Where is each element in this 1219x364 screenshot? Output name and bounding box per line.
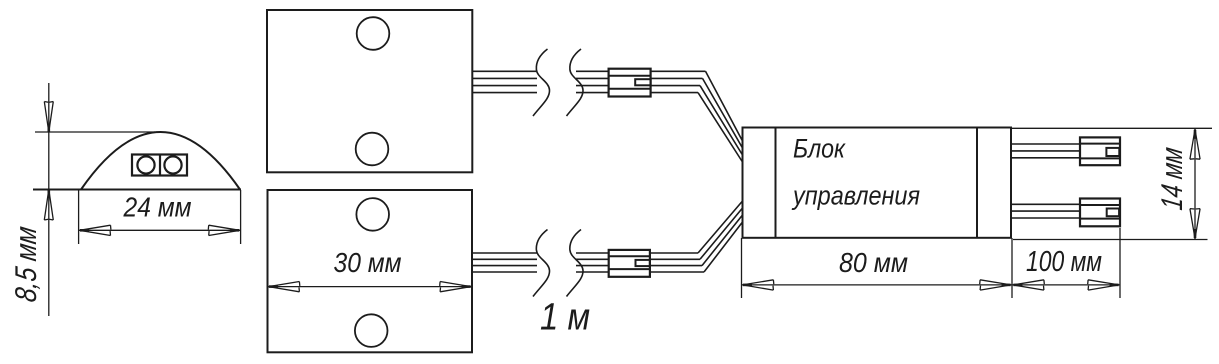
dimension 14 mm top extension line <box>1012 127 1212 129</box>
top inline connector internal lines <box>609 76 651 89</box>
bottom output wires <box>1011 204 1080 218</box>
dimension 100 mm left arrow <box>1013 280 1044 290</box>
control box right internal divider <box>976 128 978 238</box>
top output wires <box>1011 144 1080 158</box>
lower magnet-switch body <box>268 190 473 352</box>
dome left LED circle <box>137 156 154 173</box>
dome sensor front-view body <box>81 132 240 190</box>
dimension 30 mm line <box>268 286 473 288</box>
upper magnet-switch body <box>267 10 472 172</box>
top cable wires (sensor to break) <box>472 71 537 92</box>
dimension 80/100 mm shared extension line <box>1011 238 1013 298</box>
bottom cable wires (sensor to break) <box>472 253 537 272</box>
bottom inline connector internal lines <box>609 256 650 269</box>
dimension 100 mm right extension line <box>1119 228 1121 298</box>
bottom cable wires (connector to bend) <box>650 253 704 272</box>
8,5 mm upper extension line at dome apex <box>35 131 155 133</box>
dimension 80 mm line <box>742 284 1013 286</box>
upper body top hole <box>357 17 390 50</box>
top cable diagonal wires into control box <box>698 71 743 162</box>
svg-text:30 мм: 30 мм <box>334 247 402 278</box>
dimension 100 mm line <box>1012 284 1120 286</box>
top output connector internal lines <box>1080 144 1120 159</box>
dome LED window rectangle <box>132 155 187 176</box>
lower body bottom hole <box>355 314 388 347</box>
bottom inline connector body <box>609 250 650 277</box>
bottom cable break S-curve 2 <box>567 230 584 297</box>
dimension 8,5 mm bottom arrow (points up to y=189.5) <box>44 190 53 221</box>
dimension 24 mm right arrow <box>208 225 239 235</box>
top cable wires (break to connector) <box>576 71 609 92</box>
dimension 14 mm vertical line <box>1194 128 1196 239</box>
bottom cable wires (break to connector) <box>576 253 609 272</box>
svg-text:80 мм: 80 мм <box>839 247 908 278</box>
top inline connector latch <box>635 79 650 85</box>
svg-text:100 мм: 100 мм <box>1026 246 1102 278</box>
dimension 24 mm line <box>79 229 241 231</box>
bottom cable diagonal wires into control box <box>698 201 743 272</box>
svg-text:управления: управления <box>791 181 920 211</box>
dimension 80 mm left arrow <box>743 280 774 290</box>
dimension 100 mm right arrow <box>1088 280 1119 290</box>
bottom output connector internal lines <box>1080 205 1120 219</box>
dimension 24 mm right extension line <box>240 190 242 244</box>
dimension 30 mm left arrow <box>269 282 300 292</box>
top inline connector body <box>609 69 651 97</box>
dimension 14 mm top arrow <box>1190 129 1200 159</box>
svg-text:14 мм: 14 мм <box>1156 145 1189 212</box>
bottom inline connector latch <box>636 260 650 266</box>
svg-text:8,5 мм: 8,5 мм <box>10 224 43 304</box>
dome LED window center divider <box>159 155 161 176</box>
bottom output connector body <box>1080 199 1120 227</box>
dimension 24 mm left extension line <box>78 190 80 244</box>
top output connector latch <box>1106 148 1119 156</box>
upper body bottom hole <box>356 133 389 166</box>
dimension 80 mm left extension line <box>741 238 743 298</box>
lower body top hole <box>356 198 389 231</box>
control box body <box>743 128 1012 238</box>
dimension 8,5 mm top arrow (points down to y=132) <box>44 102 53 133</box>
svg-text:1 м: 1 м <box>540 297 590 339</box>
control box left internal divider <box>775 128 777 238</box>
bottom cable break S-curve 1 <box>533 230 550 297</box>
top output connector body <box>1080 137 1120 165</box>
dimension 30 mm right arrow <box>440 282 471 292</box>
dome right LED circle <box>164 156 181 173</box>
dimension 14 mm bottom extension line <box>1013 239 1208 241</box>
bottom output connector latch <box>1107 209 1119 217</box>
svg-text:24 мм: 24 мм <box>123 192 192 223</box>
dome base line (also 8,5 mm lower extension line) <box>33 189 241 191</box>
dimension 14 mm bottom arrow <box>1190 209 1200 239</box>
dimension 80 mm right arrow <box>980 280 1011 290</box>
top cable break S-curve 2 <box>567 49 584 116</box>
svg-text:Блок: Блок <box>793 134 846 164</box>
top cable break S-curve 1 <box>533 49 550 116</box>
top cable wires (connector to bend) <box>651 71 706 92</box>
dimension 24 mm left arrow <box>80 225 111 235</box>
dimension 8,5 mm vertical line <box>48 83 50 316</box>
